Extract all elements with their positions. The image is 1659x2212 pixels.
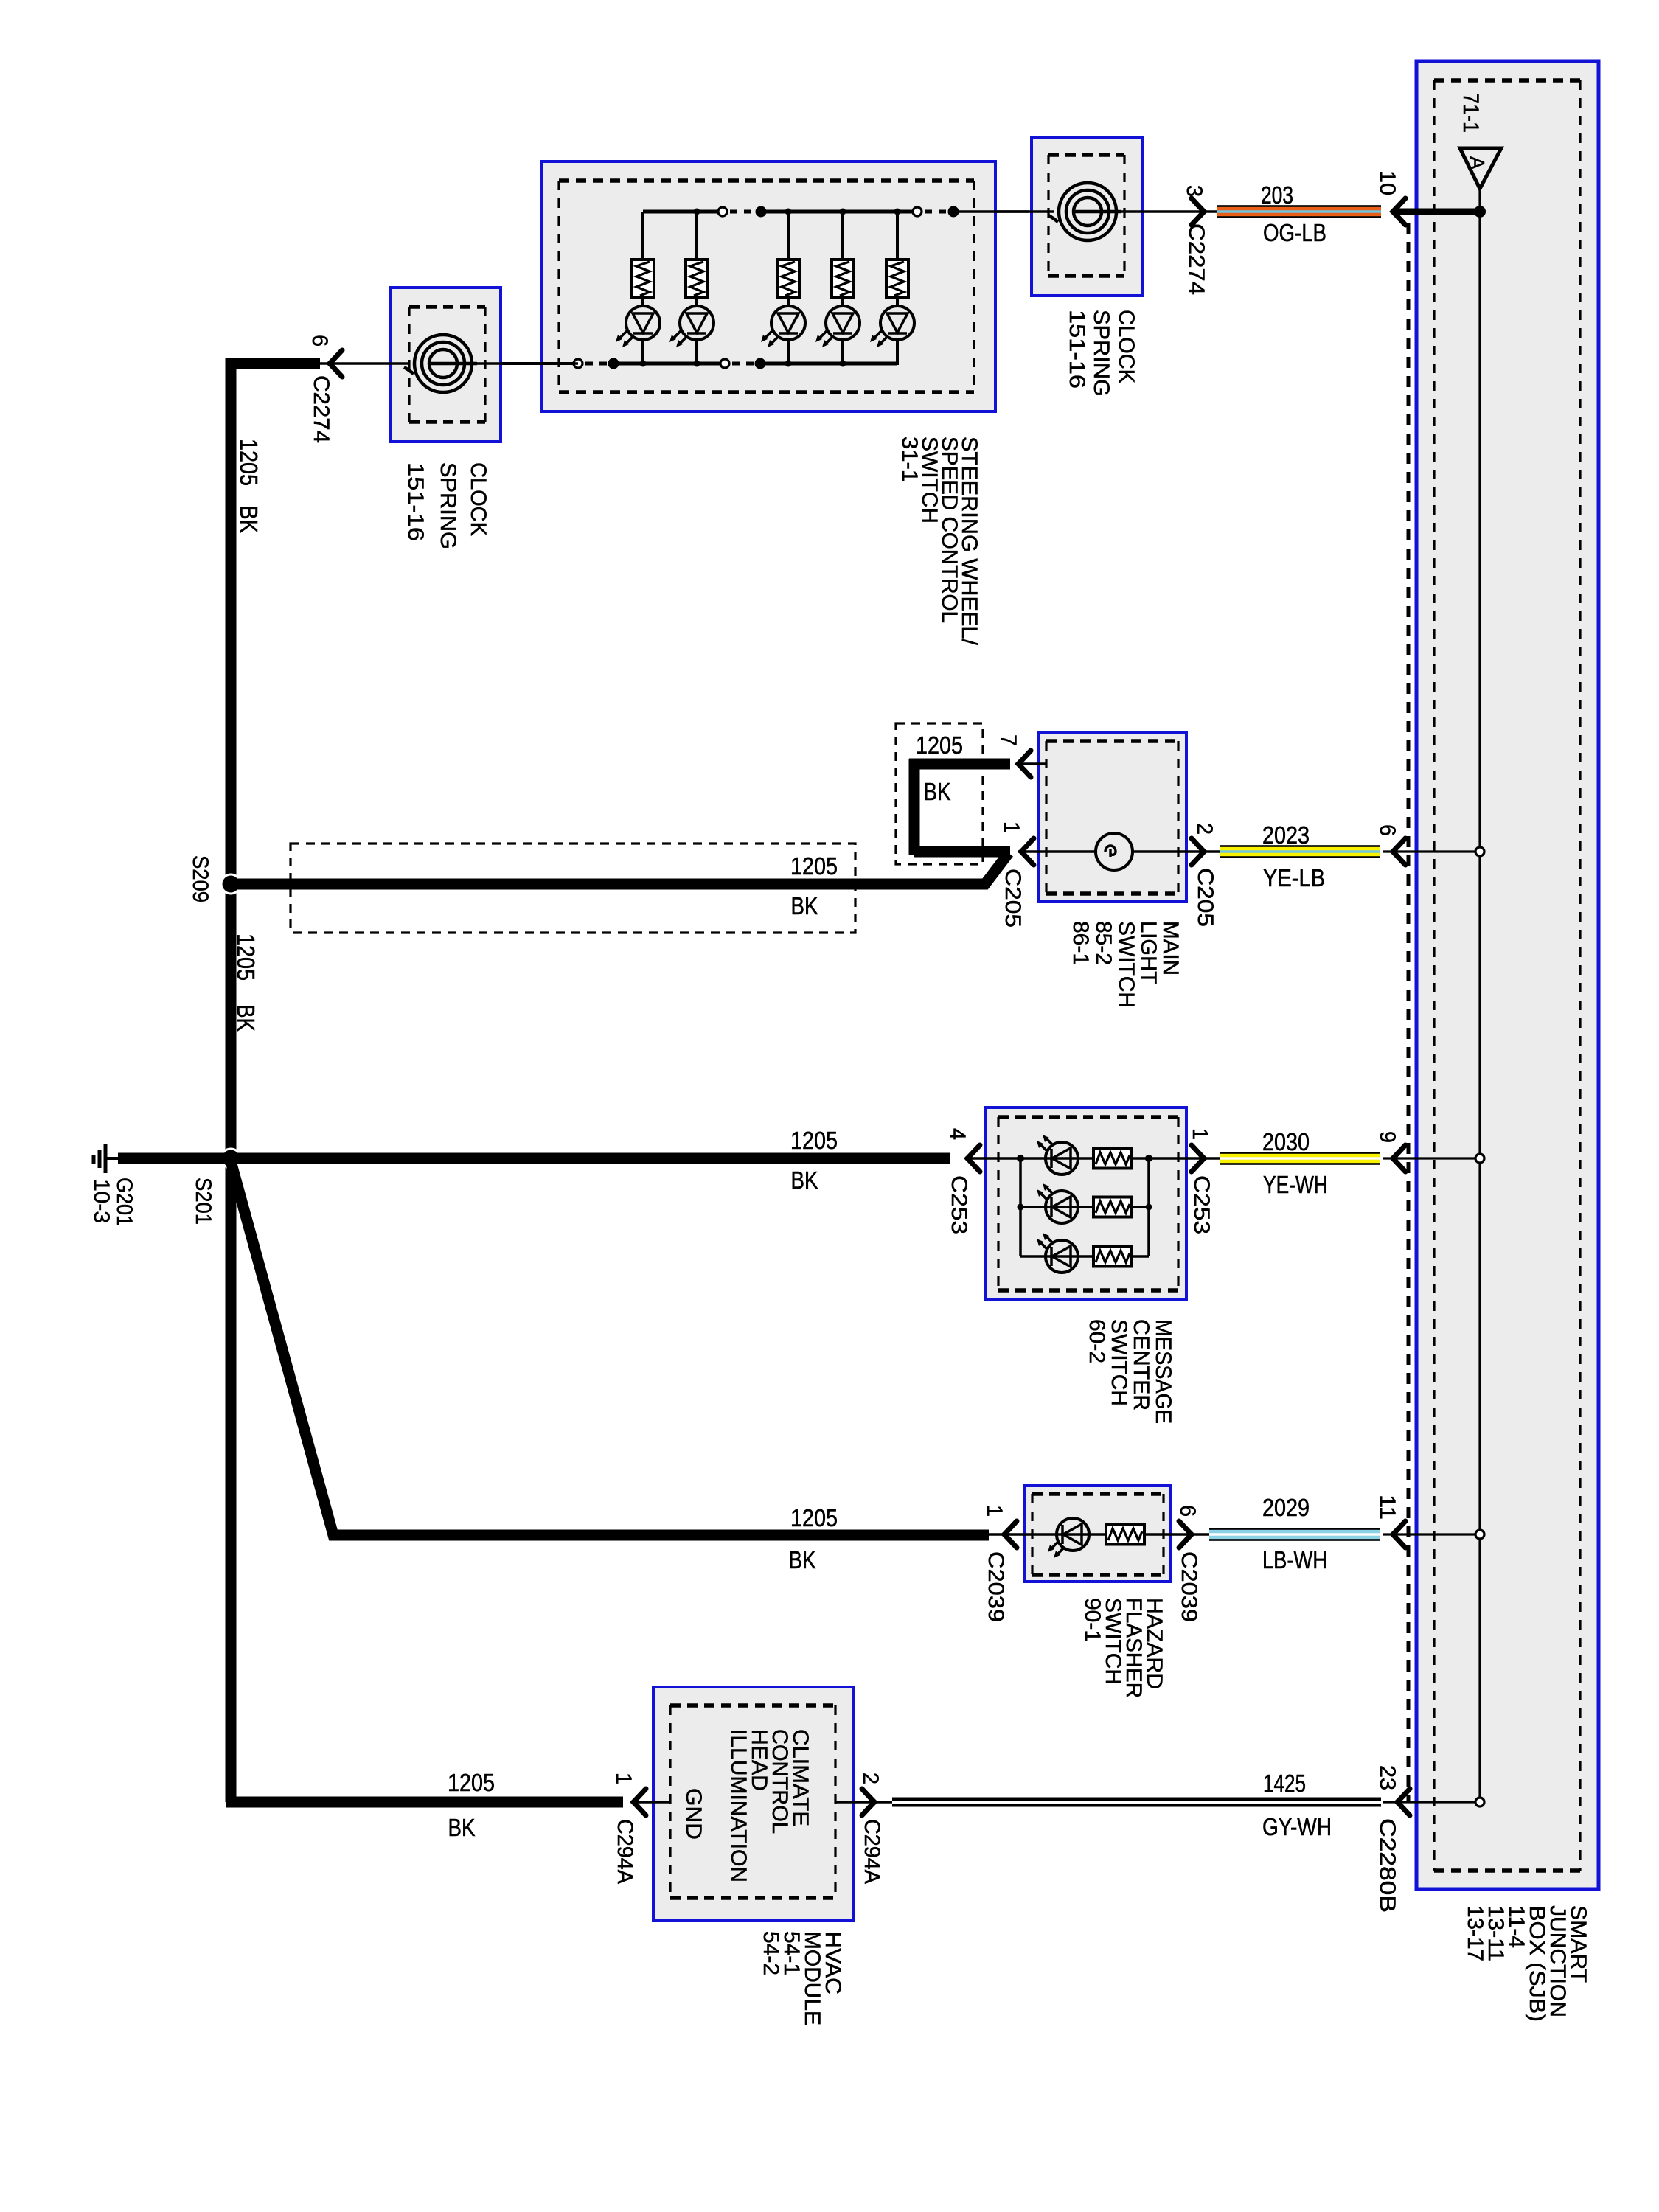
clock spring (left) box [391,288,501,442]
main light switch pin7 stub [1018,762,1046,765]
svg-text:BK: BK [924,778,951,805]
wire 2029 LB-WH [1209,1528,1380,1541]
resistor branch 3 [777,260,799,298]
bottom rail dashed gap 1 [585,362,611,366]
message center pin1 chevron [1192,1145,1204,1172]
clock spring (right) pin 3 chevron [1192,198,1204,225]
LED message row 1 [1037,1135,1078,1175]
svg-text:C294A: C294A [860,1819,884,1884]
svg-text:1205: 1205 [916,731,963,759]
steering switch top rail segment 1 [643,210,723,214]
HVAC pin2 chevron [862,1789,874,1815]
svg-text:71-1: 71-1 [1458,93,1483,133]
svg-text:1: 1 [1188,1128,1212,1140]
branch 4 link wire [841,298,844,306]
main light switch pin1 chevron [1021,838,1034,865]
illumination branch 2 top wire [695,212,698,260]
clock spring (left) wire [319,362,410,365]
bottom rail open circle 1 [574,359,582,368]
svg-text:MAIN: MAIN [1158,921,1183,975]
SJB inner dashed boundary [1434,80,1580,1871]
svg-text:60-2: 60-2 [1085,1319,1109,1363]
wire 1205 BK clock spring stub [231,358,320,369]
clock spring (right) box [1032,137,1142,296]
svg-text:2: 2 [1192,823,1217,835]
branch 2 top junction dot [694,209,700,215]
svg-text:MESSAGE: MESSAGE [1151,1319,1175,1424]
SJB pin 23 chevron [1397,1789,1410,1815]
SJB pin 9 internal wire [1382,1157,1480,1159]
branch 1 bottom wire [641,340,644,365]
hazard flasher switch box [1024,1486,1170,1582]
svg-text:203: 203 [1261,181,1293,209]
LED message row 3 [1037,1233,1078,1273]
clock spring (right) wire [953,210,1054,213]
branch 2 bottom junction dot [694,361,700,367]
resistor message row 2 [1093,1197,1132,1217]
branch 2 bottom wire [695,340,698,365]
svg-text:GY-WH: GY-WH [1262,1813,1332,1840]
junction dot pin 10 [1474,206,1486,218]
svg-text:BK: BK [791,1166,818,1194]
illumination branch 1 top wire [641,212,644,260]
branch 3 bottom junction dot [785,361,792,367]
resistor message row 3 [1093,1247,1132,1267]
resistor branch 2 [686,260,708,298]
branch 3 link wire [787,298,790,306]
top rail junction dot 1 [756,206,767,218]
wire 1205 BK from S201 to message center [231,1153,950,1164]
steering switch dashed boundary [559,181,974,392]
junction dots message center [1017,1155,1024,1162]
svg-text:2023: 2023 [1262,821,1310,849]
svg-text:13-17: 13-17 [1463,1905,1487,1961]
svg-text:1425: 1425 [1263,1770,1306,1797]
ground symbol G201 [94,1144,105,1173]
svg-text:54-2: 54-2 [759,1931,783,1975]
LED hazard [1048,1518,1089,1558]
branch 4 bottom junction dot [840,361,846,367]
hazard internal wire [989,1533,1209,1536]
svg-text:A: A [1466,156,1489,170]
HVAC pin1 stub wire [633,1801,670,1804]
SJB connector heavy dashed line [1407,223,1411,1802]
svg-text:9: 9 [1375,1131,1399,1143]
SJB pin 23 internal wire [1382,1801,1480,1803]
message center internal row 1 wire [967,1157,1220,1160]
message center row 3 wire [1020,1255,1149,1258]
bus connector circle pin 6 [1475,847,1484,856]
top rail dashed gap 1 [730,210,757,214]
top rail open circle 1 [718,207,727,216]
wire 1205 BK from S209 to main light switch [231,853,1009,884]
svg-text:C253: C253 [947,1175,971,1234]
svg-text:1205: 1205 [235,439,262,486]
steering wheel/speed control switch box [541,161,995,411]
wire 1205 BK to ground [118,1153,231,1164]
bottom rail junction dot 2 [755,358,766,369]
svg-text:1205: 1205 [232,933,260,981]
bulb symbol [1096,833,1133,870]
svg-text:BK: BK [448,1814,476,1841]
svg-text:90-1: 90-1 [1080,1598,1105,1642]
svg-text:BK: BK [235,506,262,533]
bus connector circle pin 11 [1475,1530,1484,1539]
svg-text:2: 2 [858,1773,883,1784]
svg-text:YE-WH: YE-WH [1263,1171,1328,1198]
svg-text:11: 11 [1375,1495,1399,1520]
svg-text:1205: 1205 [448,1769,495,1796]
HVAC pin2 stub wire [835,1801,892,1804]
Smart Junction Box (SJB) outline [1416,61,1599,1889]
LED branch 3 [761,306,805,347]
wire 1205 BK diagonal from S201 to hazard flasher [231,1161,989,1535]
LED message row 2 [1037,1183,1078,1223]
svg-text:BK: BK [789,1546,816,1573]
svg-text:10-3: 10-3 [89,1179,114,1223]
clock spring (left) dashed boundary [409,307,485,422]
top rail junction dot 2 [948,206,959,218]
HVAC dashed boundary [670,1705,835,1898]
svg-text:4: 4 [945,1128,970,1140]
message center left vertical [1019,1158,1022,1256]
message center pin4 chevron [967,1145,980,1172]
svg-text:SPRING: SPRING [1089,310,1113,397]
svg-text:C205: C205 [1001,869,1025,928]
svg-text:86-1: 86-1 [1068,921,1093,965]
HVAC module box [653,1687,854,1921]
message center right vertical [1147,1158,1150,1256]
clock spring (left) pin 6 chevron [330,350,342,377]
svg-text:SWITCH: SWITCH [1107,1319,1131,1406]
wire 203 OG-LB [1217,205,1381,218]
junction S209 [221,874,240,894]
branch 1 bottom junction dot [640,361,647,367]
branch 5 link wire [896,298,899,306]
HVAC pin1 chevron [633,1789,646,1815]
svg-text:1205: 1205 [790,852,838,880]
svg-text:31-1: 31-1 [897,437,922,482]
svg-text:85-2: 85-2 [1091,921,1116,965]
resistor message row 1 [1093,1149,1132,1169]
svg-text:10: 10 [1375,170,1399,195]
SJB pin 10 internal wire [1393,209,1480,215]
svg-text:CLOCK: CLOCK [1114,310,1138,383]
svg-text:CENTER: CENTER [1129,1319,1153,1411]
junction S201 [221,1149,240,1168]
svg-text:S201: S201 [191,1178,215,1225]
resistor branch 1 [632,260,654,298]
SJB internal bus wire [1478,189,1481,1802]
svg-text:LB-WH: LB-WH [1262,1546,1327,1573]
branch 5 top junction dot [894,209,901,215]
SJB pin 11 internal wire [1382,1533,1480,1535]
svg-text:BK: BK [232,1004,260,1032]
bottom rail segment 2 [760,362,897,366]
branch 4 bottom wire [841,340,844,365]
main light switch loop vertical [909,759,920,855]
svg-text:1: 1 [611,1773,636,1784]
svg-text:1205: 1205 [790,1127,838,1154]
bottom rail segment 1 [613,362,725,366]
svg-text:C2280B: C2280B [1375,1818,1399,1913]
svg-text:151-16: 151-16 [1065,310,1089,389]
svg-text:ILLUMINATION: ILLUMINATION [726,1729,751,1882]
bottom rail dashed gap 2 [732,362,757,366]
top rail segment 2 [761,210,917,214]
main light switch pin7 horizontal wire [909,759,1010,770]
main light switch pin1 horizontal wire [914,846,1010,858]
main light switch pin2 chevron [1192,838,1204,865]
branch 2 link wire [695,298,698,306]
bus connector circle pin 9 [1475,1154,1484,1163]
wire 2030 YE-WH [1220,1152,1380,1165]
svg-text:151-16: 151-16 [403,462,428,541]
branch 4 top junction dot [840,209,846,215]
svg-text:LIGHT: LIGHT [1136,921,1161,984]
svg-text:SPRING: SPRING [436,462,460,549]
branch 5 bottom wire [896,340,899,365]
main light switch dashed boundary [1046,741,1178,894]
power triangle A [1460,148,1501,189]
bottom rail open circle 2 [720,359,729,368]
svg-text:1: 1 [999,821,1023,833]
branch 3 top junction dot [785,209,792,215]
LED branch 1 [616,306,660,347]
svg-text:OG-LB: OG-LB [1263,219,1326,246]
bottom rail junction dot 1 [608,358,619,369]
message center row 2 wire [1020,1206,1149,1208]
svg-text:C294A: C294A [613,1819,637,1884]
wire 2023 YE-LB [1220,845,1380,858]
wire 1205 BK trunk vertical [226,358,237,1802]
svg-text:2030: 2030 [1262,1128,1310,1155]
svg-text:C253: C253 [1189,1175,1214,1234]
main light switch box [1039,733,1186,902]
LED branch 4 [815,306,860,347]
clock spring (right) dashed boundary [1048,155,1124,276]
svg-text:SWITCH: SWITCH [1114,921,1138,1008]
svg-text:C2039: C2039 [984,1551,1008,1622]
illumination branch 5 top wire [896,212,899,260]
svg-text:S209: S209 [188,855,212,902]
svg-text:C2274: C2274 [1184,223,1208,295]
illumination branch 3 top wire [787,212,790,260]
svg-text:C2274: C2274 [309,375,333,443]
svg-text:7: 7 [996,734,1020,746]
top rail exit wire to clock spring [953,210,1029,213]
svg-text:23: 23 [1375,1765,1399,1790]
top rail dashed gap 2 [925,210,950,214]
dashed label box around S209 wire [291,844,855,933]
branch 3 bottom wire [787,340,790,365]
clock spring (right) spiral [1048,183,1121,240]
svg-text:BK: BK [791,892,818,919]
svg-text:1: 1 [982,1505,1006,1517]
message center dashed boundary [998,1117,1178,1290]
resistor branch 5 [886,260,908,298]
SJB pin 6 internal wire [1382,850,1480,852]
svg-text:6: 6 [1375,824,1399,836]
top rail open circle 2 [913,207,922,216]
message center switch box [986,1107,1186,1299]
svg-text:CLOCK: CLOCK [466,462,490,536]
resistor branch 4 [832,260,854,298]
svg-text:1205: 1205 [790,1504,838,1531]
SJB pin 11 chevron [1393,1521,1405,1548]
bus connector circle pin 23 [1475,1798,1484,1806]
hazard flasher dashed boundary [1032,1494,1164,1575]
SJB pin 9 chevron [1393,1145,1405,1172]
steering bottom rail feed from left clock spring [472,362,578,365]
svg-text:3: 3 [1182,185,1206,197]
svg-text:G201: G201 [112,1178,136,1226]
hazard pin1 chevron [1004,1521,1017,1548]
hazard pin6 chevron [1179,1521,1192,1548]
wire 1205 BK from trunk to HVAC module [226,1797,623,1808]
LED branch 2 [669,306,714,347]
wire 1425 GY-WH [892,1798,1381,1807]
illumination branch 4 top wire [841,212,844,260]
svg-text:6: 6 [307,335,332,347]
main light switch internal wire [1018,850,1220,853]
svg-text:C205: C205 [1193,868,1217,927]
LED branch 5 [870,306,914,347]
svg-text:6: 6 [1175,1505,1200,1517]
SJB pin 10 chevron [1393,198,1405,225]
SJB pin 6 chevron [1393,838,1405,865]
svg-text:GND: GND [681,1788,706,1840]
svg-text:2029: 2029 [1262,1494,1310,1521]
clock spring (left) spiral [404,335,477,392]
resistor hazard [1106,1525,1144,1545]
branch 1 link wire [641,298,644,306]
ground wire stub [106,1157,123,1160]
svg-text:C2039: C2039 [1177,1551,1201,1622]
svg-text:YE-LB: YE-LB [1263,864,1325,891]
dashed label box around loop 1205 BK [896,723,983,864]
main light switch pin7 chevron [1018,751,1031,777]
